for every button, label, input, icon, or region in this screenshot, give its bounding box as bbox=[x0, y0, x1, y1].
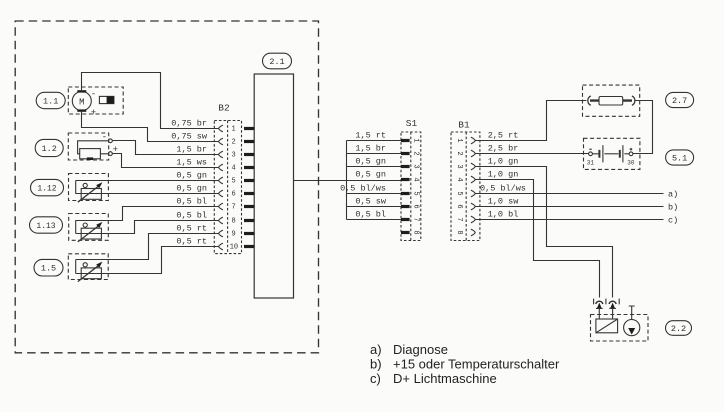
B1 terminal fork 6 bbox=[471, 203, 475, 210]
svg-text:8: 8 bbox=[412, 230, 420, 234]
svg-text:2,5 rt: 2,5 rt bbox=[488, 130, 519, 140]
svg-text:5: 5 bbox=[412, 191, 420, 195]
module 2.1 body bbox=[254, 74, 293, 298]
S1 contact tick 5 bbox=[401, 192, 410, 195]
module 2.1 pin tick 10 bbox=[244, 245, 254, 248]
B2 terminal fork pin 4 bbox=[219, 164, 223, 171]
svg-text:3: 3 bbox=[231, 152, 235, 160]
wire 1.13 bottom to B2 pin8 (0,5 bl) bbox=[76, 221, 219, 234]
svg-text:B2: B2 bbox=[218, 103, 230, 114]
svg-text:1.12: 1.12 bbox=[37, 185, 56, 194]
svg-text:0,5 gn: 0,5 gn bbox=[355, 156, 386, 166]
B2 terminal fork pin 3 bbox=[219, 151, 223, 158]
svg-text:-: - bbox=[91, 90, 96, 100]
module 2.1 pin tick 6 bbox=[244, 192, 254, 195]
S1 contact tick 4 bbox=[401, 178, 410, 181]
label oval 1.13 bbox=[30, 217, 63, 233]
svg-text:1.13: 1.13 bbox=[36, 222, 55, 231]
battery 5.1 box bbox=[584, 138, 640, 169]
component 2.2 box bbox=[591, 315, 649, 342]
svg-text:1,0 gn: 1,0 gn bbox=[488, 169, 519, 179]
svg-text:5: 5 bbox=[231, 178, 235, 186]
wire 1.13 top to B2 pin7 (0,5 bl) bbox=[76, 207, 219, 221]
B2 terminal fork pin 2 bbox=[219, 138, 223, 145]
svg-text:0,5 bl/ws: 0,5 bl/ws bbox=[340, 183, 386, 193]
harness branch to S1 row5 bbox=[347, 193, 402, 195]
connector S1 strip box bbox=[401, 132, 421, 241]
svg-text:1.5: 1.5 bbox=[41, 264, 56, 274]
B2 terminal fork pin 9 bbox=[219, 230, 223, 237]
wire 1.2 minus to B2 pin3 (1,5 br) bbox=[113, 141, 219, 155]
svg-text:9: 9 bbox=[231, 231, 235, 239]
svg-text:1,0 gn: 1,0 gn bbox=[488, 156, 519, 166]
component 1.1 box bbox=[68, 87, 123, 114]
wire B1 pin6 to terminal b (1,0 sw) bbox=[476, 206, 664, 208]
battery cell 2 plates bbox=[619, 150, 621, 158]
battery terminal 31 circle bbox=[589, 152, 593, 156]
svg-text:0,5 bl: 0,5 bl bbox=[176, 210, 207, 220]
svg-text:1: 1 bbox=[231, 126, 235, 134]
label oval 2.1 bbox=[263, 53, 292, 69]
wire B1 pin7 to terminal c (1,0 bl) bbox=[476, 219, 664, 221]
svg-text:0,5 bl/ws: 0,5 bl/ws bbox=[480, 183, 526, 193]
fuse left contact bbox=[588, 96, 591, 105]
harness bundle vertical bbox=[346, 141, 348, 220]
svg-text:6: 6 bbox=[412, 204, 420, 208]
fuse right contact bbox=[632, 96, 635, 105]
B2 terminal fork pin 10 bbox=[219, 243, 223, 250]
svg-text:0,5 rt: 0,5 rt bbox=[176, 236, 207, 246]
B1 terminal fork 1 bbox=[471, 137, 475, 144]
B1 terminal fork 2 bbox=[471, 150, 475, 157]
svg-text:7: 7 bbox=[455, 217, 463, 221]
relay coil in 2.2 bbox=[596, 319, 618, 333]
harness branch to S1 row6 bbox=[347, 206, 402, 208]
B2 terminal fork pin 8 bbox=[219, 217, 223, 224]
svg-text:0,75 sw: 0,75 sw bbox=[171, 131, 208, 141]
S1 contact tick 6 bbox=[401, 205, 410, 208]
component 1.12 box bbox=[69, 174, 109, 201]
svg-text:7: 7 bbox=[231, 204, 235, 212]
svg-text:c): c) bbox=[370, 371, 381, 386]
svg-text:-: - bbox=[102, 132, 107, 142]
svg-text:1,0 sw: 1,0 sw bbox=[488, 196, 520, 206]
suppressor element in 1.1 bbox=[99, 96, 114, 103]
temperature sensor 1.12 symbol bbox=[76, 181, 103, 203]
svg-text:b): b) bbox=[668, 202, 678, 212]
label oval 5.1 bbox=[666, 150, 694, 165]
motor M1 circle bbox=[72, 92, 91, 111]
svg-text:2.2: 2.2 bbox=[671, 324, 686, 334]
svg-text:M: M bbox=[79, 98, 84, 108]
harness branch to S1 row7 bbox=[347, 219, 402, 221]
svg-text:b): b) bbox=[370, 357, 382, 372]
wire 1.12 bottom to B2 pin6 (0,5 gn) bbox=[76, 193, 219, 195]
svg-text:2.1: 2.1 bbox=[269, 57, 284, 67]
svg-text:6: 6 bbox=[231, 191, 235, 199]
wire B1 pin4 to plug connector left (1,0 gn) bbox=[476, 180, 600, 298]
svg-text:2,5 br: 2,5 br bbox=[488, 143, 519, 153]
svg-text:8: 8 bbox=[231, 218, 235, 226]
B2 terminal fork pin 6 bbox=[219, 190, 223, 197]
module 2.1 pin tick 8 bbox=[244, 219, 254, 222]
label oval 1.12 bbox=[31, 179, 64, 195]
B2 terminal fork pin 5 bbox=[219, 177, 223, 184]
wire motor minus to B2 pin1 (0,75 br) bbox=[82, 73, 219, 129]
svg-text:4: 4 bbox=[455, 177, 463, 181]
S1 contact tick 2 bbox=[401, 152, 410, 155]
battery cell link bbox=[604, 153, 618, 155]
module 2.1 pin tick 5 bbox=[244, 179, 254, 182]
svg-text:a): a) bbox=[668, 189, 678, 199]
svg-text:0,5 gn: 0,5 gn bbox=[176, 170, 207, 180]
harness branch to S1 row1 bbox=[347, 140, 402, 142]
svg-text:1,5 rt: 1,5 rt bbox=[355, 130, 386, 140]
1.2 terminal circles bbox=[109, 139, 113, 143]
svg-text:4: 4 bbox=[412, 177, 420, 181]
svg-text:5: 5 bbox=[455, 191, 463, 195]
B1 terminal fork 5 bbox=[471, 190, 475, 197]
svg-text:a): a) bbox=[370, 342, 382, 357]
plug connector right socket bbox=[609, 301, 616, 304]
battery cell 1 plates bbox=[592, 153, 598, 155]
wire B1 pin3 to plug connector right (1,0 gn) bbox=[476, 167, 613, 298]
connector B2 strip box bbox=[214, 121, 241, 254]
svg-text:2: 2 bbox=[231, 139, 235, 147]
svg-text:1,0 bl: 1,0 bl bbox=[488, 209, 519, 219]
label oval 2.2 bbox=[666, 321, 692, 336]
svg-text:10: 10 bbox=[230, 244, 238, 252]
wire B1 pin2 to battery 5.1 (2,5 br) bbox=[476, 153, 589, 155]
svg-text:2: 2 bbox=[412, 151, 420, 155]
svg-text:1.1: 1.1 bbox=[43, 97, 58, 107]
component 1.13 box bbox=[69, 214, 109, 241]
svg-text:0,5 gn: 0,5 gn bbox=[355, 169, 386, 179]
B1 terminal fork 4 bbox=[471, 176, 475, 183]
1.2 internal wiring bbox=[78, 141, 109, 154]
svg-text:5.1: 5.1 bbox=[672, 154, 687, 164]
plug connector left socket bbox=[596, 301, 603, 304]
B2 terminal fork pin 1 bbox=[219, 125, 223, 132]
wire 1.5 top to B2 pin9 (0,5 rt) bbox=[76, 234, 219, 260]
wire 1.5 bottom to B2 pin10 (0,5 rt) bbox=[76, 247, 219, 274]
svg-text:0,5 sw: 0,5 sw bbox=[355, 196, 387, 206]
plug connector separator bars bbox=[594, 299, 620, 305]
enclosure dashed border box bbox=[15, 21, 318, 353]
svg-text:6: 6 bbox=[455, 204, 463, 208]
svg-text:1.2: 1.2 bbox=[42, 144, 57, 154]
module 2.1 pin tick 3 bbox=[244, 153, 254, 156]
svg-text:+: + bbox=[91, 108, 96, 118]
svg-text:1: 1 bbox=[412, 138, 420, 142]
wire fuse to battery positive bbox=[633, 101, 653, 154]
svg-text:0,5 rt: 0,5 rt bbox=[176, 223, 207, 233]
wire into relay coil bbox=[599, 315, 612, 320]
svg-text:+15 oder Temperaturschalter: +15 oder Temperaturschalter bbox=[393, 357, 560, 372]
label oval 2.7 bbox=[666, 92, 694, 107]
svg-text:1,5 br: 1,5 br bbox=[355, 143, 386, 153]
svg-text:8: 8 bbox=[455, 230, 463, 234]
module 2.1 pin tick 9 bbox=[244, 232, 254, 235]
temperature sensor 1.5 symbol bbox=[76, 260, 103, 282]
component 1.5 box bbox=[68, 254, 108, 280]
S1 contact tick 3 bbox=[401, 165, 410, 168]
pump motor circle in 2.2 bbox=[624, 320, 640, 336]
svg-text:1,5 ws: 1,5 ws bbox=[176, 157, 207, 167]
svg-text:c): c) bbox=[668, 215, 678, 225]
label oval 1.1 bbox=[36, 92, 65, 108]
svg-text:7: 7 bbox=[412, 217, 420, 221]
S1 contact tick 1 bbox=[401, 139, 410, 142]
pump vent stub bbox=[629, 306, 635, 320]
plug connector left pin arrow bbox=[597, 303, 602, 309]
wire 1.12 top to B2 pin5 (0,5 gn) bbox=[76, 180, 219, 182]
plug connector right pin arrow bbox=[610, 303, 615, 309]
connector B1 strip box bbox=[451, 132, 480, 241]
svg-text:0,5 gn: 0,5 gn bbox=[176, 183, 207, 193]
svg-text:D+ Lichtmaschine: D+ Lichtmaschine bbox=[393, 371, 497, 386]
B2 terminal fork pin 7 bbox=[219, 203, 223, 210]
module 2.1 pin tick 4 bbox=[244, 166, 254, 169]
svg-text:S1: S1 bbox=[406, 118, 418, 129]
B1 terminal fork 8 bbox=[471, 229, 475, 236]
svg-text:30: 30 bbox=[627, 160, 635, 167]
S1 contact tick 7 bbox=[401, 218, 410, 221]
wire module 2.1 output to S1 row4 bbox=[294, 180, 402, 182]
module 2.1 pin tick 1 bbox=[244, 127, 254, 130]
label oval 1.5 bbox=[34, 259, 63, 276]
B1 terminal fork 3 bbox=[471, 163, 475, 170]
fuse body F1 bbox=[599, 97, 623, 106]
label oval 1.2 bbox=[35, 139, 63, 156]
battery terminal 30 circle bbox=[629, 152, 633, 156]
svg-text:0,5 bl: 0,5 bl bbox=[176, 196, 207, 206]
wire motor plus to B2 pin2 (0,75 sw) bbox=[82, 111, 219, 142]
wire B1 pin5 to terminal a (0,5 bl/ws) bbox=[476, 193, 664, 195]
svg-text:0,5 bl: 0,5 bl bbox=[355, 209, 386, 219]
motor terminal bars bbox=[77, 90, 86, 92]
module 2.1 pin tick 2 bbox=[244, 140, 254, 143]
B1 terminal fork 7 bbox=[471, 216, 475, 223]
svg-text:3: 3 bbox=[455, 164, 463, 168]
fuse 2.7 box bbox=[583, 85, 640, 116]
svg-text:31: 31 bbox=[587, 160, 595, 167]
harness branch to S1 row2 bbox=[347, 153, 402, 155]
svg-text:3: 3 bbox=[412, 164, 420, 168]
1.2 internal resistor bbox=[80, 149, 101, 159]
svg-text:Diagnose: Diagnose bbox=[393, 342, 448, 357]
svg-text:0,75 br: 0,75 br bbox=[171, 118, 207, 128]
svg-text:B1: B1 bbox=[458, 120, 470, 131]
wire 1.2 plus to B2 pin4 (1,5 ws) bbox=[113, 154, 219, 168]
component 1.2 box bbox=[68, 133, 108, 160]
svg-text:2: 2 bbox=[455, 151, 463, 155]
svg-text:2.7: 2.7 bbox=[672, 96, 687, 106]
svg-text:1: 1 bbox=[455, 138, 463, 142]
temperature sensor 1.13 symbol bbox=[76, 220, 103, 242]
module 2.1 pin tick 7 bbox=[244, 205, 254, 208]
S1 contact tick 8 bbox=[401, 231, 410, 234]
svg-text:1,5 br: 1,5 br bbox=[176, 144, 207, 154]
harness branch to S1 row3 bbox=[347, 166, 402, 168]
svg-text:4: 4 bbox=[231, 165, 235, 173]
wire B1 pin1 to fuse 2.7 (2,5 rt) bbox=[476, 101, 587, 141]
